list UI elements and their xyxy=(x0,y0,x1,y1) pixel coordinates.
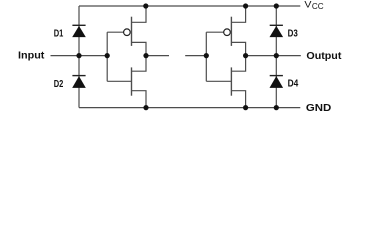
node: VCC / Q1 source xyxy=(143,3,148,8)
node: GND / Q2 source xyxy=(143,105,148,110)
wire output lead xyxy=(246,55,301,57)
node: GND / Q4 source xyxy=(243,105,248,110)
wire stage2 input stub xyxy=(185,55,206,57)
node: stage2 input xyxy=(204,53,209,58)
wire input lead xyxy=(51,55,108,57)
svg-text:Input: Input xyxy=(18,51,45,62)
transistor Q4 (NMOS, right inverter) xyxy=(206,56,245,108)
junction dots xyxy=(76,3,279,110)
node: input / D1 D2 xyxy=(76,53,81,58)
node: GND / D4 xyxy=(274,105,279,110)
wire D2 branch xyxy=(78,56,80,108)
wire D1 branch xyxy=(78,6,80,56)
diode D2 xyxy=(72,76,86,88)
svg-text:CC: CC xyxy=(312,1,324,11)
svg-text:D2: D2 xyxy=(54,79,64,90)
svg-text:D3: D3 xyxy=(288,29,299,40)
svg-text:D1: D1 xyxy=(54,29,64,40)
node: stage1 output xyxy=(143,53,148,58)
wire GND bottom rail xyxy=(79,107,300,109)
wire D4 branch xyxy=(275,56,277,108)
svg-text:Output: Output xyxy=(306,51,342,62)
svg-text:GND: GND xyxy=(306,103,331,114)
wire gate riser right xyxy=(205,32,207,81)
node: input / gates 1 xyxy=(105,53,110,58)
diode D3 xyxy=(270,25,284,37)
diode D4 xyxy=(270,76,284,88)
wire stage1 output stub xyxy=(146,55,169,57)
node: VCC / D3 xyxy=(274,3,279,8)
node: output / D3 D4 xyxy=(274,53,279,58)
node: VCC / Q3 source xyxy=(243,3,248,8)
wire gate riser left xyxy=(106,32,108,81)
node: stage2 output xyxy=(243,53,248,58)
transistor Q1 (PMOS, left inverter) xyxy=(107,6,146,56)
transistor Q3 (PMOS, right inverter) xyxy=(206,6,245,56)
transistor Q2 (NMOS, left inverter) xyxy=(107,56,146,108)
diode D1 xyxy=(72,25,86,37)
wire D3 branch xyxy=(275,6,277,56)
wire VCC top rail xyxy=(79,5,300,7)
svg-text:D4: D4 xyxy=(288,79,299,90)
